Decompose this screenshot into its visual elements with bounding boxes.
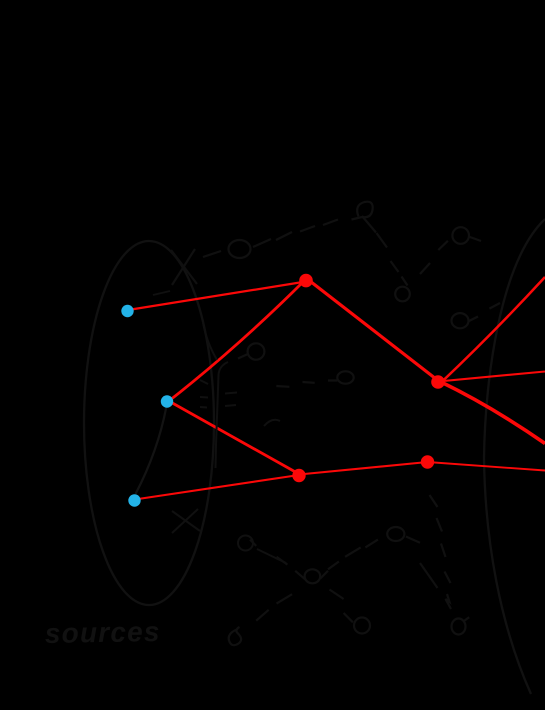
wire R1-R2 (red) bbox=[306, 278, 438, 381]
node B3 (blue source) bbox=[128, 494, 140, 506]
handwriting: o at bottom of chain A bbox=[354, 618, 370, 634]
node R1 (red) bbox=[299, 274, 313, 288]
handwriting: Q balloon glyph bbox=[352, 202, 373, 220]
wire B2-B3 (black edge) bbox=[136, 406, 167, 494]
handwriting: O circle below-left of R1 bbox=[248, 343, 265, 359]
handwriting: x glyph below-right of B3 bbox=[172, 509, 200, 533]
handwriting: dashed diagonal mid-right bbox=[430, 495, 451, 583]
handwriting: x glyph left of R1 bbox=[171, 249, 197, 285]
wire B2-R1 (red) bbox=[167, 279, 306, 403]
handwriting: o glyph bbox=[395, 287, 410, 302]
handwriting: dash below o bbox=[257, 549, 286, 563]
wire R2-right-bottom (red) bbox=[439, 381, 545, 444]
handwriting: O glyph right bbox=[452, 313, 469, 328]
node B1 (blue source) bbox=[121, 305, 133, 317]
handwriting: tiny dash inside ellipse near B1 bbox=[153, 291, 170, 295]
wire R4-R3 (red) bbox=[299, 462, 428, 475]
handwriting: bottom o-with-tail glyph bbox=[452, 619, 466, 635]
handwriting: dash 1 bbox=[203, 251, 221, 257]
handwriting: bracket with ticks right of B2 bbox=[216, 362, 229, 468]
svg-text:sources: sources bbox=[45, 616, 161, 649]
handwriting: stroke left of o glyph bbox=[203, 322, 217, 360]
wire B2-R4 (red) bbox=[167, 400, 299, 474]
handwriting: ampersand-like glyph after sources bbox=[229, 627, 241, 645]
wire R2-right-mid (red) bbox=[438, 372, 545, 382]
handwriting: o glyph upper right bbox=[452, 227, 469, 244]
handwriting: small arc right of B2-R4 line bbox=[264, 420, 280, 426]
handwriting: dash 3 bbox=[300, 226, 315, 232]
handwriting: O at top of chain B bbox=[387, 527, 404, 541]
wire R2-right-top (red) bbox=[440, 277, 545, 384]
handwriting: dash 2 bbox=[253, 239, 271, 247]
handwriting: curve with o right of R1 bbox=[362, 216, 387, 248]
handwriting: o glyph below ellipse right bbox=[238, 536, 253, 551]
handwriting: ticks left of that o bbox=[276, 381, 337, 387]
node R2 (red) bbox=[431, 375, 445, 389]
handwriting: O circle on diagonal bbox=[229, 240, 251, 258]
handwriting: dash 4 bbox=[323, 220, 338, 226]
wire B1-R1 (red) bbox=[128, 282, 306, 311]
wire B3-R4 (red) bbox=[135, 475, 299, 500]
handwriting: o near R1-R2 midpoint bbox=[337, 371, 353, 383]
node R3 (red) bbox=[421, 455, 434, 468]
handwriting: bottom X chain A (down-right) bbox=[250, 540, 353, 623]
node B2 (blue source) bbox=[161, 395, 173, 407]
wire R3-right (red) bbox=[428, 462, 545, 471]
node R4 (red) bbox=[292, 469, 305, 482]
sources ellipse bbox=[84, 241, 214, 605]
handwriting: center o of X bbox=[305, 569, 321, 583]
destinations ellipse arc (right, cut off) bbox=[484, 219, 545, 694]
handwriting: bottom X chain B (up-right) bbox=[256, 537, 420, 621]
